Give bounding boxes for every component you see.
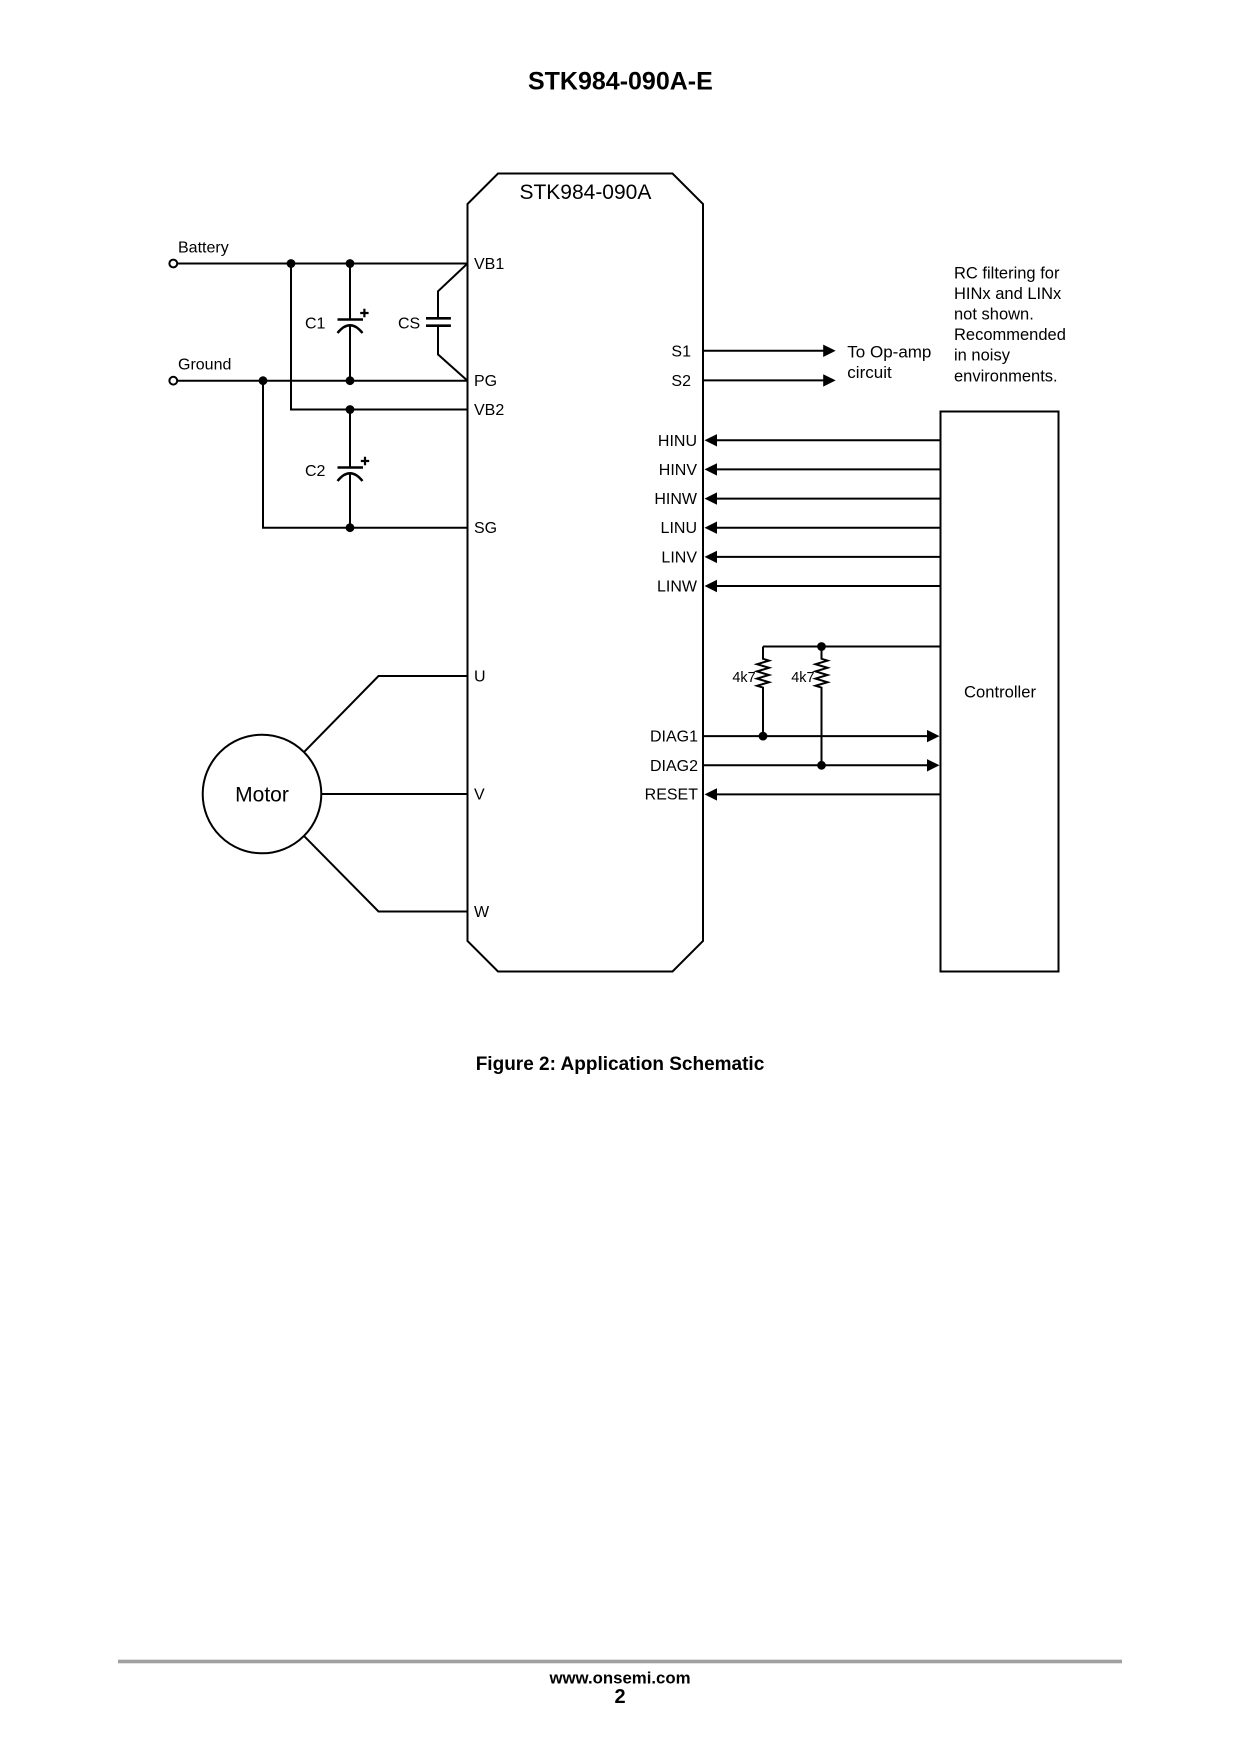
svg-text:not shown.: not shown.	[954, 306, 1034, 324]
svg-text:CS: CS	[398, 316, 420, 333]
svg-text:2: 2	[614, 1686, 625, 1708]
node VB2-C2 junction	[346, 405, 355, 414]
wire HINW	[705, 492, 941, 504]
svg-text:DIAG2: DIAG2	[650, 758, 698, 775]
svg-text:Controller: Controller	[964, 683, 1036, 702]
resistor R2 4k7	[816, 647, 828, 766]
svg-text:Ground: Ground	[178, 356, 231, 373]
capacitor C2	[338, 410, 370, 528]
svg-text:LINW: LINW	[657, 579, 698, 596]
wire RESET from controller	[705, 788, 941, 800]
svg-text:S2: S2	[671, 373, 691, 390]
svg-text:VB2: VB2	[474, 402, 504, 419]
wire pull-up rail	[763, 646, 941, 648]
wire ground to PG	[177, 380, 467, 382]
svg-text:S1: S1	[671, 343, 691, 360]
svg-text:Recommended: Recommended	[954, 326, 1066, 344]
node DIAG1-R1 junction	[759, 732, 768, 741]
svg-text:DIAG1: DIAG1	[650, 729, 698, 746]
svg-text:LINU: LINU	[661, 520, 697, 537]
wire DIAG2 to controller	[703, 759, 940, 771]
svg-text:W: W	[474, 904, 490, 921]
svg-text:STK984-090A-E: STK984-090A-E	[528, 68, 713, 96]
note RC filtering	[954, 264, 1066, 385]
svg-text:V: V	[474, 787, 485, 804]
wire SG rail	[263, 381, 468, 528]
node battery-VB2 junction	[287, 259, 296, 268]
svg-text:C1: C1	[305, 316, 326, 333]
wire S1 to op-amp	[703, 345, 836, 357]
node rail-R2 junction	[817, 642, 826, 651]
svg-text:HINx and LINx: HINx and LINx	[954, 285, 1062, 303]
capacitor CS	[426, 264, 468, 381]
svg-text:4k7: 4k7	[791, 670, 814, 686]
svg-text:To Op-amp: To Op-amp	[847, 342, 931, 361]
ground terminal	[169, 377, 177, 385]
battery terminal	[169, 260, 177, 268]
svg-text:Battery: Battery	[178, 240, 229, 257]
svg-text:circuit: circuit	[847, 363, 892, 382]
svg-text:RC filtering for: RC filtering for	[954, 264, 1060, 282]
svg-text:U: U	[474, 669, 486, 686]
wire S2 to op-amp	[703, 374, 836, 386]
svg-text:PG: PG	[474, 373, 497, 390]
capacitor C1	[338, 264, 369, 381]
node ground-C1 junction	[346, 376, 355, 385]
resistor R1 4k7	[757, 647, 769, 737]
svg-text:C2: C2	[305, 463, 326, 480]
wire battery to VB1	[177, 263, 467, 265]
svg-text:www.onsemi.com: www.onsemi.com	[548, 1668, 690, 1687]
svg-text:Motor: Motor	[235, 783, 289, 806]
svg-text:LINV: LINV	[661, 549, 697, 566]
svg-text:in noisy: in noisy	[954, 347, 1011, 365]
svg-text:HINV: HINV	[659, 462, 698, 479]
svg-text:4k7: 4k7	[732, 670, 755, 686]
op-amp U1 STK984-090A IC body	[468, 174, 704, 972]
wire DIAG1 to controller	[703, 730, 940, 742]
node ground-SG junction	[259, 376, 268, 385]
svg-text:HINW: HINW	[654, 491, 698, 508]
controller box	[941, 412, 1059, 972]
wire LINV	[705, 551, 941, 563]
motor M1	[203, 735, 322, 854]
svg-text:environments.: environments.	[954, 367, 1058, 385]
node SG-C2 junction	[346, 523, 355, 532]
svg-text:Figure 2: Application Schemati: Figure 2: Application Schematic	[476, 1054, 765, 1075]
wire LINW	[705, 580, 941, 592]
note To Op-amp circuit	[847, 342, 931, 382]
footer rule	[118, 1660, 1122, 1664]
wire VB2 rail	[291, 264, 468, 410]
wire motor V	[321, 793, 467, 795]
svg-text:STK984-090A: STK984-090A	[519, 181, 651, 204]
node battery-C1 junction	[346, 259, 355, 268]
wire motor U	[304, 676, 468, 752]
svg-text:VB1: VB1	[474, 256, 504, 273]
node DIAG2-R2 junction	[817, 761, 826, 770]
svg-text:HINU: HINU	[658, 433, 697, 450]
wire HINU	[705, 434, 941, 446]
svg-text:RESET: RESET	[645, 787, 699, 804]
wire HINV	[705, 463, 941, 475]
wire LINU	[705, 522, 941, 534]
svg-text:SG: SG	[474, 520, 497, 537]
wire motor W	[304, 836, 468, 912]
